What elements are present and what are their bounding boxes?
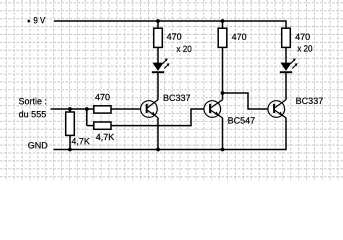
- wire fork into R6: [87, 125, 94, 127]
- wire R4 top lead: [69, 109, 71, 112]
- svg-text:Sortie :: Sortie :: [18, 96, 47, 106]
- svg-text:470: 470: [232, 32, 247, 42]
- svg-text:470: 470: [295, 32, 310, 42]
- svg-text:4,7K: 4,7K: [71, 136, 90, 146]
- wire R6 across to Q2 base: [111, 109, 204, 126]
- wire R1 bottom lead to LED1: [157, 47, 159, 63]
- wire R4 bottom lead to GND rail: [69, 135, 71, 149]
- svg-text:470: 470: [95, 92, 110, 102]
- svg-text:x 20: x 20: [297, 43, 312, 53]
- resistor R2 470: [218, 28, 227, 47]
- transistor Q3 BC337: [268, 100, 286, 118]
- resistor R6 4,7K (horizontal, to Q2 base): [94, 122, 111, 129]
- wire R5 to Q1 base: [111, 108, 140, 110]
- wire fork down to R6 level: [86, 109, 88, 126]
- wire Q2 collector node to Q3 base: [223, 93, 268, 109]
- wire LED2 cathode to Q3 collector: [285, 72, 287, 100]
- svg-text:BC337: BC337: [163, 93, 191, 103]
- wire 9V rail segment 3 + bend down into R3: [223, 21, 287, 28]
- wire Q2 emitter down: [222, 118, 224, 150]
- wire 9V rail segment 2: [158, 20, 223, 22]
- junction GND/R4: [68, 148, 72, 152]
- junction rail/R1: [156, 19, 160, 23]
- svg-text:GND: GND: [28, 140, 49, 150]
- svg-text:x 20: x 20: [176, 44, 191, 54]
- node +9V supply marker: [27, 19, 30, 22]
- transistor Q1 BC337: [141, 100, 158, 118]
- junction Sortie fork: [85, 107, 89, 111]
- junction GND/Q1 emitter: [156, 148, 160, 152]
- wire R1 top lead: [157, 21, 159, 28]
- resistor R1 470 (x20 LEDs): [154, 28, 163, 47]
- wire 9V top rail: [54, 20, 158, 22]
- wire LED1 cathode to Q1 collector: [157, 72, 159, 100]
- svg-text:470: 470: [167, 32, 182, 42]
- svg-text:BC547: BC547: [228, 116, 256, 126]
- wire Q1 emitter down: [157, 118, 159, 150]
- junction Sortie/R4: [68, 107, 72, 111]
- LED D2: [280, 59, 298, 73]
- junction node Q2 collector / Q3 base tap: [221, 91, 225, 95]
- resistor R5 470 (horizontal, to Q1 base): [94, 106, 111, 113]
- wire R2 top lead: [222, 21, 224, 28]
- resistor R3 470 (x20 LEDs): [282, 28, 291, 47]
- junction rail/R2: [221, 19, 225, 23]
- svg-text:4,7K: 4,7K: [96, 132, 115, 142]
- svg-text:BC337: BC337: [296, 96, 324, 106]
- wire Sortie input line: [51, 108, 94, 110]
- transistor Q2 BC547: [204, 100, 223, 118]
- wire R2 bottom lead down to Q2 collector: [222, 47, 224, 99]
- wire R3 bottom lead to LED2: [285, 47, 287, 63]
- svg-text:9 V: 9 V: [33, 15, 45, 25]
- wire GND bottom rail + Q3 emitter riser: [54, 118, 287, 150]
- svg-text:du 555: du 555: [19, 109, 47, 119]
- LED D1: [152, 59, 170, 73]
- resistor R4 4,7K (vertical): [66, 112, 75, 135]
- junction GND/Q2 emitter: [221, 148, 225, 152]
